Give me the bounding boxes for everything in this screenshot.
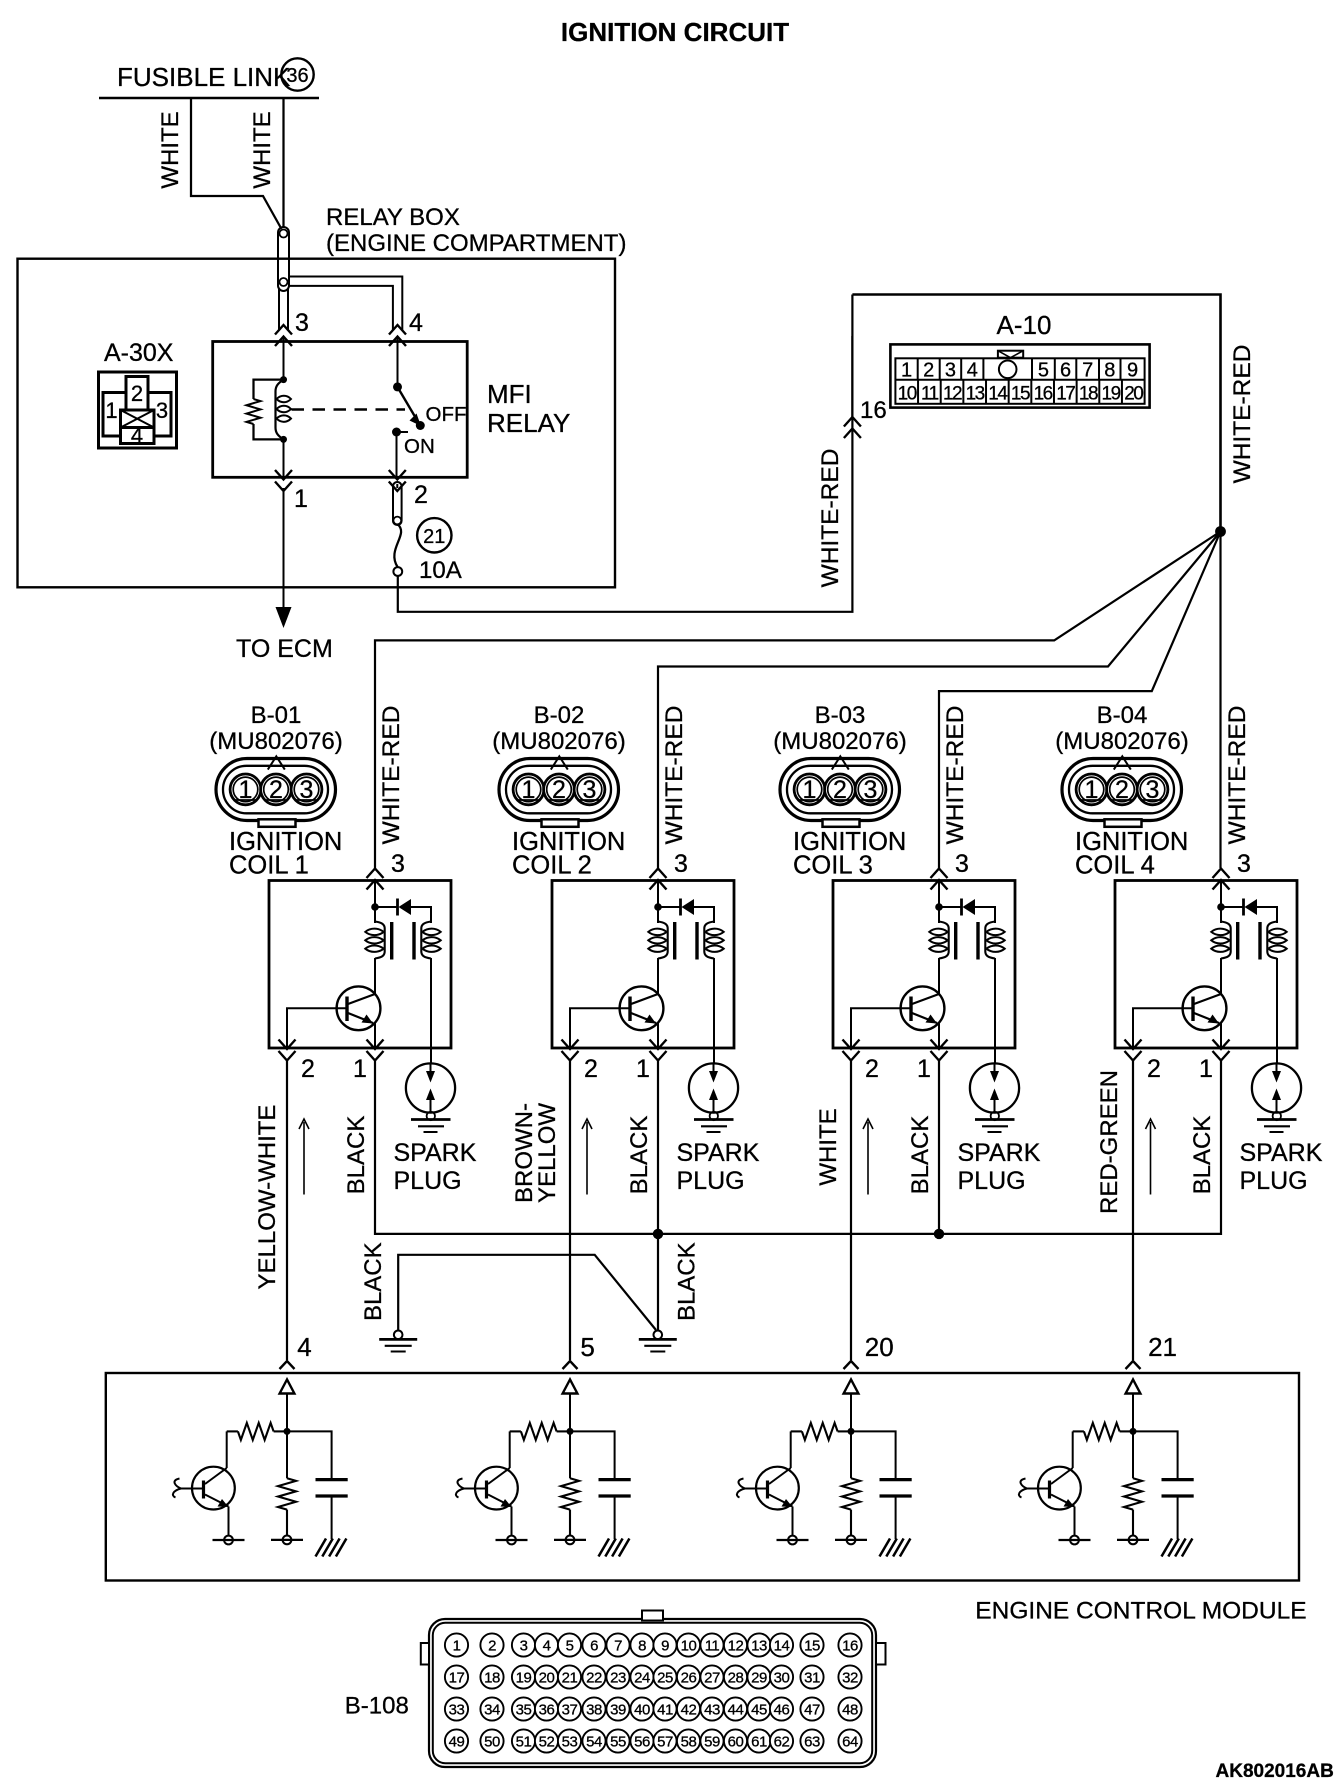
svg-text:1: 1 [917,1055,931,1083]
svg-text:B-03: B-03 [815,702,866,729]
svg-text:ON: ON [404,435,435,458]
svg-text:48: 48 [842,1702,858,1719]
svg-text:2: 2 [923,360,934,382]
coil 1 secondary lead to spark plug [430,958,432,1064]
coil 4 internal supply wire [1220,881,1222,924]
coil 2 diode [658,899,714,924]
svg-text:3: 3 [391,850,405,878]
svg-text:60: 60 [728,1734,744,1751]
ECM driver 4 chassis ground [1162,1539,1193,1557]
svg-text:24: 24 [634,1670,650,1687]
svg-text:64: 64 [842,1734,858,1751]
ECM driver 4 capacitor [1133,1431,1194,1539]
svg-text:10: 10 [898,384,917,405]
relay pin 3 arrow [275,325,292,335]
svg-text:5: 5 [566,1638,574,1655]
MFI relay outline [213,342,468,478]
ground bus junction coil 2 [653,1229,663,1239]
svg-text:21: 21 [562,1670,578,1687]
svg-text:20: 20 [865,1332,894,1362]
relay coil top junction [280,376,287,383]
svg-text:2: 2 [301,1055,315,1083]
ECM pin 5 entry triangle [563,1380,578,1394]
spark plug 4 [1252,1063,1301,1132]
coil 3 diode [939,899,995,924]
coil 3 pin 2 arrow [843,1051,860,1061]
svg-text:YELLOW: YELLOW [534,1103,561,1203]
MFI relay label [487,379,570,438]
svg-text:BLACK: BLACK [674,1242,701,1321]
svg-text:3: 3 [583,776,597,804]
coil 4 secondary lead to spark plug [1276,958,1278,1064]
coil 4 pin 3 arrow [1213,869,1230,879]
wire white-red branch to coil 2 [658,532,1221,869]
svg-text:8: 8 [1104,360,1115,382]
svg-text:12: 12 [728,1638,744,1655]
svg-text:2: 2 [865,1055,879,1083]
svg-text:FUSIBLE LINK: FUSIBLE LINK [117,62,291,92]
coil 2 secondary lead to spark plug [713,958,715,1064]
svg-text:4: 4 [967,360,978,382]
coil 1 primary winding [375,922,385,959]
ECM driver 3 pulldown resistor [842,1478,860,1509]
svg-text:17: 17 [1056,384,1075,405]
svg-text:WHITE-RED: WHITE-RED [1229,345,1256,484]
svg-text:WHITE: WHITE [815,1108,842,1185]
ECM driver 3 chassis ground [880,1539,911,1557]
ignition coil 4 outline [1115,881,1297,1049]
svg-text:40: 40 [634,1702,650,1719]
coil 4 power transistor [1183,958,1227,1048]
svg-text:17: 17 [449,1670,465,1687]
fuse 21 10A element [394,524,401,567]
svg-text:3: 3 [674,850,688,878]
svg-text:50: 50 [484,1734,500,1751]
connector B-02 label [492,702,625,755]
coil 4 primary winding [1221,922,1231,959]
wire black ground bus [375,1060,1221,1234]
svg-text:(MU802076): (MU802076) [773,728,906,755]
svg-text:10: 10 [681,1638,697,1655]
svg-text:BLACK: BLACK [907,1116,934,1195]
ignition coil 3 label [793,828,906,880]
TO ECM arrow [276,607,292,628]
svg-text:3: 3 [945,360,956,382]
svg-text:1: 1 [453,1638,461,1655]
connector B-04 label [1055,702,1188,755]
svg-text:58: 58 [681,1734,697,1751]
coil 1 base wire [287,1008,347,1048]
relay coil winding [276,380,284,440]
svg-text:55: 55 [610,1734,626,1751]
wire to ECM pin 4 [286,1060,288,1360]
relay switch to pin 2 wire [396,432,398,477]
svg-text:4: 4 [543,1638,551,1655]
svg-text:2: 2 [584,1055,598,1083]
svg-text:RELAY BOX: RELAY BOX [326,204,460,231]
svg-text:(MU802076): (MU802076) [492,728,625,755]
svg-text:COIL 2: COIL 2 [512,852,592,880]
signal arrow coil 3 [867,1122,869,1195]
svg-text:23: 23 [610,1670,626,1687]
svg-text:28: 28 [728,1670,744,1687]
ECM driver 1 chassis ground [316,1539,347,1557]
svg-text:COIL 3: COIL 3 [793,852,873,880]
svg-text:COIL 4: COIL 4 [1075,852,1155,880]
svg-text:3: 3 [295,309,309,337]
svg-text:6: 6 [1060,360,1071,382]
wire relay pin 2 to fuse [396,484,398,488]
double wire from connector to relay pin 4 [289,277,402,331]
coil 2 pin 1 arrow [650,1051,667,1061]
svg-text:29: 29 [751,1670,767,1687]
svg-text:B-108: B-108 [345,1693,409,1720]
coil 2 secondary winding [704,922,714,959]
svg-text:45: 45 [751,1702,767,1719]
svg-text:63: 63 [804,1734,820,1751]
relay pin 1 arrow [275,482,292,492]
svg-text:(MU802076): (MU802076) [1055,728,1188,755]
wire WHITE right branch [282,98,284,228]
svg-text:14: 14 [988,384,1008,405]
ECM driver 4 transistor [1019,1431,1091,1544]
coil 2 internal supply wire [657,881,659,924]
ECM pin 4 connector arrow [280,1361,295,1369]
svg-text:33: 33 [449,1702,465,1719]
coil 4 core [1236,922,1239,960]
connector B-03 symbol [780,756,900,827]
ECM driver 1 base resistor [238,1423,274,1440]
svg-text:WHITE-RED: WHITE-RED [378,706,405,845]
svg-text:36: 36 [286,65,308,87]
svg-text:7: 7 [614,1638,622,1655]
svg-text:35: 35 [516,1702,532,1719]
ECM pin 21 entry triangle [1126,1380,1141,1394]
svg-text:WHITE: WHITE [249,111,276,188]
coil 3 power transistor [901,958,945,1048]
ECM pin 20 entry triangle [844,1380,859,1394]
svg-text:2: 2 [1115,776,1129,804]
double wire from connector to relay pin 3 [278,289,280,330]
coil 4 pin 2 arrow [1125,1051,1142,1061]
svg-text:26: 26 [681,1670,697,1687]
svg-text:1: 1 [901,360,912,382]
svg-text:ENGINE CONTROL MODULE: ENGINE CONTROL MODULE [975,1598,1306,1625]
svg-text:IGNITION CIRCUIT: IGNITION CIRCUIT [561,17,789,47]
svg-text:PLUG: PLUG [394,1167,462,1195]
coil 1 pin 2 arrow [279,1051,296,1061]
svg-text:57: 57 [657,1734,673,1751]
svg-text:21: 21 [1148,1332,1177,1362]
wire white-red branch to coil 1 [375,532,1221,869]
relay pin 4 arrow [389,325,406,335]
relay box (engine compartment) outline [18,259,616,588]
svg-text:AK802016AB: AK802016AB [1216,1761,1334,1782]
coil 1 internal supply wire [374,881,376,924]
svg-text:PLUG: PLUG [1240,1167,1308,1195]
wire black ground link [398,1255,656,1331]
spark plug 1 label [394,1139,477,1195]
svg-text:2: 2 [1147,1055,1161,1083]
svg-text:RELAY: RELAY [487,408,570,438]
signal arrow coil 4 [1150,1122,1152,1195]
svg-text:B-04: B-04 [1097,702,1148,729]
svg-text:9: 9 [1127,360,1138,382]
svg-text:1: 1 [522,776,536,804]
wire white-red branch to coil 3 [939,532,1221,869]
ground G1 [394,1331,403,1340]
svg-text:9: 9 [661,1638,669,1655]
spark plug 1 [406,1063,455,1132]
ECM driver 2 capacitor [570,1431,631,1539]
coil 1 pin 1 arrow [367,1051,384,1061]
svg-text:1: 1 [105,398,117,423]
wire to ECM pin 21 [1132,1060,1134,1360]
svg-text:30: 30 [774,1670,790,1687]
coil 1 secondary winding [421,922,431,959]
svg-text:19: 19 [516,1670,532,1687]
svg-text:11: 11 [921,384,939,405]
relay switch ON contact [392,428,401,437]
svg-text:(MU802076): (MU802076) [209,728,342,755]
svg-text:14: 14 [774,1638,790,1655]
ECM pin 21 connector arrow [1126,1361,1141,1369]
svg-text:2: 2 [414,481,428,509]
ignition coil 1 label [229,828,342,880]
ECM pin 4 entry triangle [280,1380,295,1394]
svg-text:BLACK: BLACK [343,1116,370,1195]
svg-text:1: 1 [353,1055,367,1083]
fuse connector capsule [393,482,402,525]
ECM driver 4 base resistor [1084,1423,1120,1440]
wire A-10 pin 16 through-feed (top bus) [852,295,1220,532]
coil 4 pin 1 arrow [1213,1051,1230,1061]
ECM pin 5 connector arrow [563,1361,578,1369]
svg-text:B-01: B-01 [251,702,302,729]
svg-text:RED-GREEN: RED-GREEN [1096,1070,1123,1214]
svg-text:2: 2 [833,776,847,804]
svg-text:8: 8 [638,1638,646,1655]
svg-text:A-10: A-10 [997,310,1052,340]
signal arrow coil 2 [586,1122,588,1195]
ignition coil 2 outline [552,881,734,1049]
coil 2 pin 2 arrow [562,1051,579,1061]
svg-text:BLACK: BLACK [626,1116,653,1195]
svg-text:46: 46 [774,1702,790,1719]
svg-text:SPARK: SPARK [677,1139,760,1167]
connector B-108 [421,1611,886,1768]
fuse number 21 circled [417,518,451,552]
svg-text:16: 16 [842,1638,858,1655]
wire WHITE left branch [191,98,282,229]
svg-text:SPARK: SPARK [394,1139,477,1167]
ECM driver 3 input wire [850,1394,852,1479]
ECM driver 4 input wire [1132,1394,1134,1479]
svg-text:56: 56 [634,1734,650,1751]
svg-text:43: 43 [704,1702,720,1719]
wire label BROWN-YELLOW [511,1103,561,1203]
ignition coil 1 outline [269,881,451,1049]
ECM driver 3 capacitor [851,1431,912,1539]
coil 2 primary winding [658,922,668,959]
relay switch common contact [397,342,399,388]
svg-text:3: 3 [156,398,168,423]
coil 1 power transistor [337,958,381,1048]
svg-text:52: 52 [539,1734,555,1751]
ECM driver 1 capacitor [287,1431,348,1539]
coil 3 internal supply wire [938,881,940,924]
spark plug 4 label [1240,1139,1323,1195]
svg-text:6: 6 [590,1638,598,1655]
svg-text:15: 15 [804,1638,820,1655]
relay switch dashed actuation line [292,408,406,410]
svg-text:11: 11 [705,1638,720,1655]
svg-text:15: 15 [1011,384,1030,405]
svg-text:TO ECM: TO ECM [236,635,333,663]
ECM driver 2 pulldown resistor [561,1478,579,1509]
svg-text:BLACK: BLACK [1189,1116,1216,1195]
ignition coil 4 label [1075,828,1188,880]
spark plug 2 label [677,1139,760,1195]
spark plug 3 label [958,1139,1041,1195]
svg-text:COIL 1: COIL 1 [229,852,309,880]
svg-text:34: 34 [484,1702,500,1719]
wire to ECM pin 5 [569,1060,571,1360]
svg-text:2: 2 [131,381,143,406]
engine control module outline [106,1373,1299,1581]
coil 2 base wire [570,1008,630,1048]
svg-text:5: 5 [1038,360,1049,382]
coil 4 base wire [1133,1008,1193,1048]
relay resistor branch wire [254,380,284,440]
ECM driver 4 pulldown resistor [1124,1478,1142,1509]
ECM driver 1 pulldown resistor [278,1478,296,1509]
svg-text:1: 1 [803,776,817,804]
svg-text:54: 54 [586,1734,602,1751]
svg-text:20: 20 [1124,384,1143,405]
svg-text:3: 3 [1146,776,1160,804]
connector B-02 symbol [499,756,619,827]
wire fuse to connector A-10 pin 16 [398,336,853,612]
ECM pin 20 connector arrow [844,1361,859,1369]
svg-text:BLACK: BLACK [360,1242,387,1321]
svg-text:4: 4 [297,1332,311,1362]
svg-text:B-02: B-02 [534,702,585,729]
svg-text:MFI: MFI [487,379,532,409]
svg-text:PLUG: PLUG [958,1167,1026,1195]
ignition coil 3 outline [833,881,1015,1049]
svg-text:3: 3 [520,1638,528,1655]
svg-text:12: 12 [943,384,962,405]
ignition coil 2 label [512,828,625,880]
coil 4 secondary winding [1267,922,1277,959]
coil 1 pin 3 arrow [367,869,384,879]
svg-text:WHITE-RED: WHITE-RED [942,706,969,845]
svg-text:5: 5 [580,1332,594,1362]
connector B-01 symbol [216,756,336,827]
connector B-03 label [773,702,906,755]
ECM driver 3 transistor [737,1431,809,1544]
relay box label [326,204,626,257]
svg-text:47: 47 [804,1702,820,1719]
coil 1 diode [375,899,431,924]
svg-text:WHITE-RED: WHITE-RED [817,449,844,588]
svg-text:(ENGINE COMPARTMENT): (ENGINE COMPARTMENT) [326,230,626,257]
svg-text:2: 2 [269,776,283,804]
inline connector capsule [278,227,289,291]
coil 3 pin 1 arrow [931,1051,948,1061]
ECM driver 2 transistor [456,1431,528,1544]
connector A-10 [890,344,1149,407]
svg-text:19: 19 [1102,384,1121,405]
coil 2 core [673,922,676,960]
relay switch arm [398,387,416,418]
svg-text:1: 1 [636,1055,650,1083]
signal arrow coil 1 [303,1122,305,1195]
svg-text:2: 2 [552,776,566,804]
coil 3 base wire [851,1008,911,1048]
svg-text:20: 20 [539,1670,555,1687]
fusible link number 36 [281,58,313,90]
svg-text:53: 53 [562,1734,578,1751]
svg-text:PLUG: PLUG [677,1167,745,1195]
svg-text:18: 18 [1079,384,1098,405]
svg-text:62: 62 [774,1734,790,1751]
svg-text:10A: 10A [419,557,462,584]
svg-text:A-30X: A-30X [104,339,174,367]
ECM driver 3 base resistor [802,1423,838,1440]
spark plug 2 [689,1063,738,1132]
svg-text:3: 3 [300,776,314,804]
junction node white-red splice [1215,526,1226,537]
ECM driver 1 transistor [173,1431,245,1544]
svg-text:31: 31 [804,1670,820,1687]
svg-text:1: 1 [294,485,308,513]
svg-text:3: 3 [1237,850,1251,878]
svg-text:27: 27 [704,1670,720,1687]
svg-text:3: 3 [955,850,969,878]
svg-text:25: 25 [657,1670,673,1687]
ECM driver 2 base resistor [521,1423,557,1440]
svg-text:4: 4 [131,423,143,448]
coil 2 pin 3 arrow [650,869,667,879]
svg-text:4: 4 [409,309,423,337]
svg-text:WHITE-RED: WHITE-RED [1224,706,1251,845]
ground G2 (coil side) [654,1331,663,1340]
svg-text:WHITE: WHITE [157,111,184,188]
svg-text:36: 36 [539,1702,555,1719]
wire relay pin 1 to ECM [283,488,285,608]
wire to ECM pin 20 [850,1060,852,1360]
svg-text:37: 37 [562,1702,578,1719]
coil 3 pin 3 arrow [931,869,948,879]
svg-text:1: 1 [1199,1055,1213,1083]
svg-text:39: 39 [610,1702,626,1719]
coil 3 secondary winding [985,922,995,959]
svg-text:16: 16 [860,397,887,424]
ECM driver 1 input wire [286,1394,288,1479]
coil 2 power transistor [620,958,664,1048]
svg-text:7: 7 [1082,360,1093,382]
svg-text:2: 2 [488,1638,496,1655]
svg-text:38: 38 [586,1702,602,1719]
coil 3 primary winding [939,922,949,959]
connector B-01 label [209,702,342,755]
svg-text:3: 3 [864,776,878,804]
svg-text:SPARK: SPARK [958,1139,1041,1167]
svg-text:22: 22 [586,1670,602,1687]
ECM driver 2 input wire [569,1394,571,1479]
